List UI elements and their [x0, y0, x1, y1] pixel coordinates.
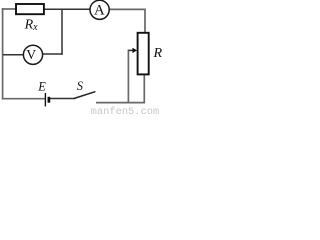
- svg-text:S: S: [77, 79, 83, 93]
- svg-text:E: E: [37, 79, 46, 93]
- svg-text:V: V: [26, 47, 36, 62]
- svg-text:manfen5.com: manfen5.com: [91, 106, 160, 116]
- svg-text:A: A: [94, 3, 105, 19]
- svg-text:R: R: [153, 45, 163, 61]
